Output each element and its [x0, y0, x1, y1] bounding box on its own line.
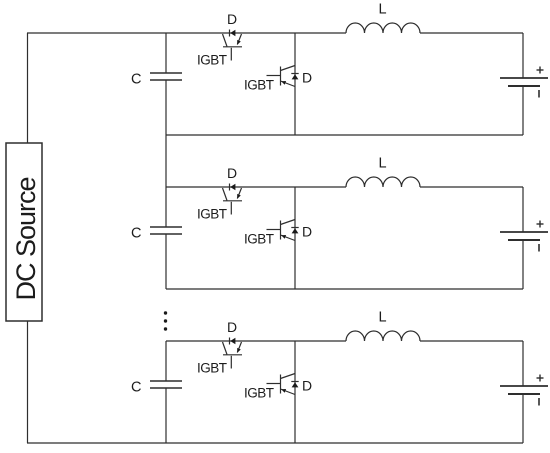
diode D (antiparallel, lower switch, cell 1)	[291, 70, 312, 86]
wire: cell 2 top rail (inductor to battery)	[420, 186, 523, 188]
DC source V1	[6, 143, 42, 321]
wire: cell 3 top rail (inductor to battery)	[420, 340, 523, 342]
wire: half-bridge leg, cell 3	[294, 341, 296, 443]
wire: capacitor C2 top lead	[165, 187, 167, 227]
wire: bottom rail (cell 3 bottom, full width)	[27, 442, 523, 444]
svg-text:D: D	[227, 319, 237, 335]
inductor L, cell 3	[346, 310, 420, 342]
battery (output source), cell 3	[500, 341, 548, 443]
diode D (antiparallel, upper switch, cell 2)	[227, 165, 237, 191]
svg-text:D: D	[227, 165, 237, 181]
plus terminal label	[537, 377, 544, 379]
svg-text:C: C	[131, 72, 141, 88]
battery (output source), cell 1	[500, 33, 548, 135]
inductor L, cell 2	[346, 156, 420, 188]
svg-text:L: L	[378, 310, 386, 326]
svg-text:DC Source: DC Source	[11, 177, 41, 300]
plus terminal label	[537, 69, 544, 71]
svg-text:IGBT: IGBT	[244, 78, 274, 93]
minus terminal label	[538, 244, 540, 252]
wire: cell 2 top rail (left of inductor)	[166, 186, 346, 188]
svg-text:IGBT: IGBT	[244, 232, 274, 247]
diode D (antiparallel, upper switch, cell 1)	[227, 11, 237, 37]
battery (output source), cell 2	[500, 187, 548, 289]
wire: cell 3 top rail (left of inductor)	[166, 340, 346, 342]
diode D (antiparallel, upper switch, cell 3)	[227, 319, 237, 345]
wire: cell 1 bottom rail	[166, 134, 523, 136]
minus terminal label	[538, 398, 540, 406]
diode D (antiparallel, lower switch, cell 3)	[291, 378, 312, 394]
wire: left bus top (DC source + to top rail)	[27, 33, 29, 143]
wire: half-bridge leg, cell 2	[294, 187, 296, 289]
IGBT lower switch, cell 2	[244, 220, 295, 247]
svg-text:IGBT: IGBT	[197, 361, 227, 376]
IGBT upper switch, cell 1	[197, 34, 242, 68]
wire: capacitor C3 bottom lead	[165, 388, 167, 443]
IGBT upper switch, cell 3	[197, 342, 242, 376]
capacitor C1	[131, 72, 182, 88]
svg-text:IGBT: IGBT	[244, 386, 274, 401]
svg-text:IGBT: IGBT	[197, 53, 227, 68]
wire: half-bridge leg, cell 1	[294, 33, 296, 135]
svg-text:D: D	[302, 224, 312, 240]
wire: capacitor C2 bottom lead	[165, 234, 167, 289]
wire: top rail cell 1 (left of inductor)	[27, 32, 346, 34]
wire: capacitor C1 bottom lead	[165, 80, 167, 135]
svg-text:D: D	[302, 378, 312, 394]
diode D (antiparallel, lower switch, cell 2)	[291, 224, 312, 240]
svg-text:L: L	[378, 156, 386, 172]
svg-text:D: D	[302, 70, 312, 86]
wire: left bus bottom (DC source - to bottom rail)	[27, 321, 29, 443]
wire: link bus cell1-cell2	[165, 135, 167, 187]
svg-text:C: C	[131, 226, 141, 242]
capacitor C3	[131, 380, 182, 396]
IGBT lower switch, cell 3	[244, 374, 295, 401]
svg-text:C: C	[131, 380, 141, 396]
minus terminal label	[538, 90, 540, 98]
IGBT lower switch, cell 1	[244, 66, 295, 93]
wire: capacitor C1 top lead	[165, 33, 167, 73]
svg-text:L: L	[378, 2, 386, 18]
plus terminal label	[537, 223, 544, 225]
node: continuation dots between cell 2 and cell 3	[164, 311, 167, 330]
wire: cell 1 top rail (inductor to battery)	[420, 32, 523, 34]
svg-text:IGBT: IGBT	[197, 207, 227, 222]
capacitor C2	[131, 226, 182, 242]
svg-text:D: D	[227, 11, 237, 27]
wire: cell 2 bottom rail	[166, 288, 523, 290]
IGBT upper switch, cell 2	[197, 188, 242, 222]
inductor L, cell 1	[346, 2, 420, 34]
wire: capacitor C3 top lead	[165, 341, 167, 381]
